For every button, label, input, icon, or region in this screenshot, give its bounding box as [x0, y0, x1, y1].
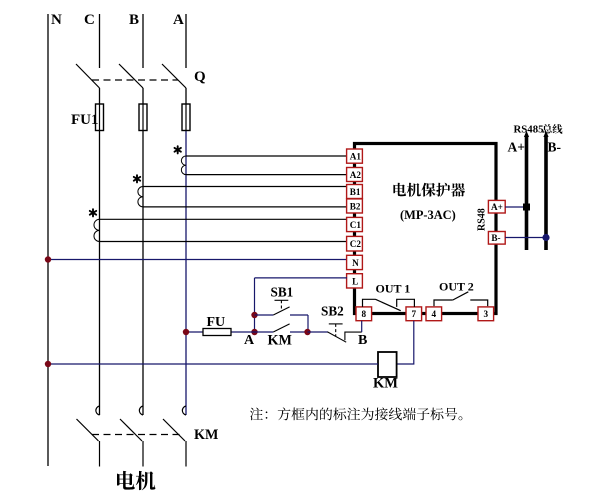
- wire: phase A vertical line (upper): [185, 14, 187, 415]
- junction dot on N line (coil return): [45, 361, 51, 367]
- svg-text:B-: B-: [548, 139, 562, 154]
- terminal 3 box: [478, 307, 494, 321]
- junction dot SB1 branch: [251, 312, 257, 318]
- svg-text:A2: A2: [350, 170, 362, 180]
- terminal L box: [347, 274, 363, 288]
- svg-text:A: A: [244, 333, 255, 348]
- svg-text:A1: A1: [350, 152, 362, 162]
- fuse FU1 pole A: [182, 104, 190, 131]
- terminal C1 box: [347, 217, 363, 231]
- terminal N box: [347, 255, 363, 269]
- note text 注：方框内的标注为接线端子标号。: [250, 407, 462, 420]
- CT current transformer phase B polarity mark *: [134, 175, 140, 182]
- junction dot A+ bus: [523, 204, 530, 211]
- contactor KM main contact pole C: [77, 406, 100, 467]
- terminal C2 box: [347, 236, 363, 251]
- relay contact OUT2 (between terminals 4 and 3): [434, 292, 488, 306]
- svg-text:OUT 1: OUT 1: [376, 282, 411, 296]
- terminal B1 box: [347, 185, 363, 199]
- terminal 7 box: [406, 307, 422, 321]
- svg-text:SB1: SB1: [271, 284, 294, 299]
- junction dot on N line (N wire tap): [45, 256, 51, 262]
- terminal B- box: [488, 232, 505, 245]
- contactor KM main contact pole A: [163, 406, 186, 467]
- contactor KM main contact pole B: [120, 406, 143, 467]
- svg-text:KM: KM: [194, 427, 218, 443]
- CT current transformer phase B winding: [138, 187, 143, 207]
- wire CT-C to terminal C1: [100, 218, 348, 220]
- CT current transformer phase A polarity mark *: [175, 146, 181, 153]
- wire L drop (vertical riser): [254, 278, 256, 332]
- wire terminal 7 down to KM coil: [397, 321, 414, 364]
- terminal 8 box: [356, 307, 372, 321]
- switch Q linkage dashed line: [92, 79, 178, 81]
- svg-text:7: 7: [412, 309, 417, 319]
- wire: phase C vertical line (upper): [99, 14, 101, 415]
- svg-text:OUT 2: OUT 2: [439, 280, 474, 294]
- svg-text:SB2: SB2: [321, 303, 344, 318]
- junction dot on phase A (control tap): [183, 329, 189, 335]
- wire SB2 to terminal 8: [361, 321, 363, 332]
- fuse FU1 pole B: [139, 104, 147, 131]
- svg-text:N: N: [51, 12, 62, 28]
- RS485 bus line B-: [543, 131, 548, 250]
- svg-text:RS485: RS485: [514, 124, 544, 136]
- svg-text:FU1: FU1: [71, 112, 99, 128]
- CT current transformer phase C polarity mark *: [90, 209, 96, 216]
- svg-text:A+: A+: [491, 202, 503, 212]
- svg-text:N: N: [352, 258, 359, 268]
- wire N line to terminal N: [48, 259, 347, 261]
- svg-text:L: L: [352, 276, 358, 286]
- svg-text:B: B: [129, 12, 139, 28]
- wire: phase B vertical line (upper): [142, 14, 144, 415]
- wire CT-B to terminal B1: [143, 186, 347, 188]
- terminal A+ box: [488, 200, 505, 213]
- svg-text:FU: FU: [207, 315, 226, 330]
- svg-text:A: A: [173, 12, 184, 28]
- svg-text:C2: C2: [350, 239, 362, 249]
- terminal A2 box: [347, 168, 363, 182]
- pushbutton SB2 (stop, NC): [308, 324, 362, 342]
- motor protector MP-3AC outline box: [355, 144, 497, 314]
- svg-text:C1: C1: [350, 220, 362, 230]
- label RS485总线: [514, 124, 563, 136]
- contactor KM linkage dashed line: [92, 434, 180, 436]
- svg-text:B: B: [358, 333, 367, 348]
- svg-text:KM: KM: [373, 376, 398, 392]
- terminal A1 box: [347, 149, 363, 163]
- switch Q pole C blade: [76, 64, 100, 88]
- svg-text:RS48: RS48: [477, 208, 488, 231]
- svg-text:8: 8: [362, 309, 367, 319]
- svg-text:(MP-3AC): (MP-3AC): [400, 208, 456, 222]
- RS485 bus line A+: [524, 131, 529, 250]
- svg-text:B1: B1: [350, 187, 361, 197]
- CT current transformer phase C winding: [94, 219, 100, 241]
- switch Q pole A blade: [162, 64, 186, 88]
- fuse FU1 pole C: [96, 104, 104, 131]
- contact KM auxiliary (self-hold, NO): [255, 324, 308, 332]
- wire CT-A to terminal A1: [186, 155, 347, 157]
- terminal 4 box: [426, 307, 442, 321]
- wire CT-C to terminal C2: [100, 241, 348, 243]
- wire KM coil to N line: [48, 363, 378, 365]
- wire terminal L to control (horizontal): [255, 277, 348, 279]
- relay contact OUT1 (between terminals 8 and 7): [363, 299, 415, 310]
- svg-text:A+: A+: [508, 139, 525, 154]
- svg-text:4: 4: [432, 309, 437, 319]
- svg-text:Q: Q: [194, 69, 206, 85]
- svg-text:B-: B-: [491, 233, 500, 243]
- wire: phase N vertical line: [47, 14, 49, 466]
- fuse FU (control): [203, 329, 231, 336]
- wire CT-B to terminal B2: [143, 206, 347, 208]
- junction dot right of KM contact: [304, 329, 310, 335]
- svg-text:KM: KM: [268, 332, 292, 348]
- svg-text:3: 3: [484, 309, 489, 319]
- wire phase A tap to FU: [186, 331, 255, 333]
- switch Q pole B blade: [119, 64, 143, 88]
- wire terminal A+ to bus: [505, 206, 526, 208]
- label 电机保护器 (motor protector): [393, 183, 465, 197]
- wire terminal B- to bus: [505, 237, 546, 239]
- junction dot B- bus: [542, 234, 549, 241]
- terminal B2 box: [347, 199, 363, 213]
- junction dot KM branch: [251, 329, 257, 335]
- svg-text:B2: B2: [350, 201, 361, 211]
- pushbutton SB1 (start, NO): [255, 315, 309, 332]
- svg-text:C: C: [84, 12, 95, 28]
- wire CT-A to terminal A2: [186, 174, 347, 176]
- coil KM (contactor coil): [378, 352, 397, 377]
- CT current transformer phase A winding: [181, 156, 186, 175]
- label 电机 (motor): [117, 471, 155, 490]
